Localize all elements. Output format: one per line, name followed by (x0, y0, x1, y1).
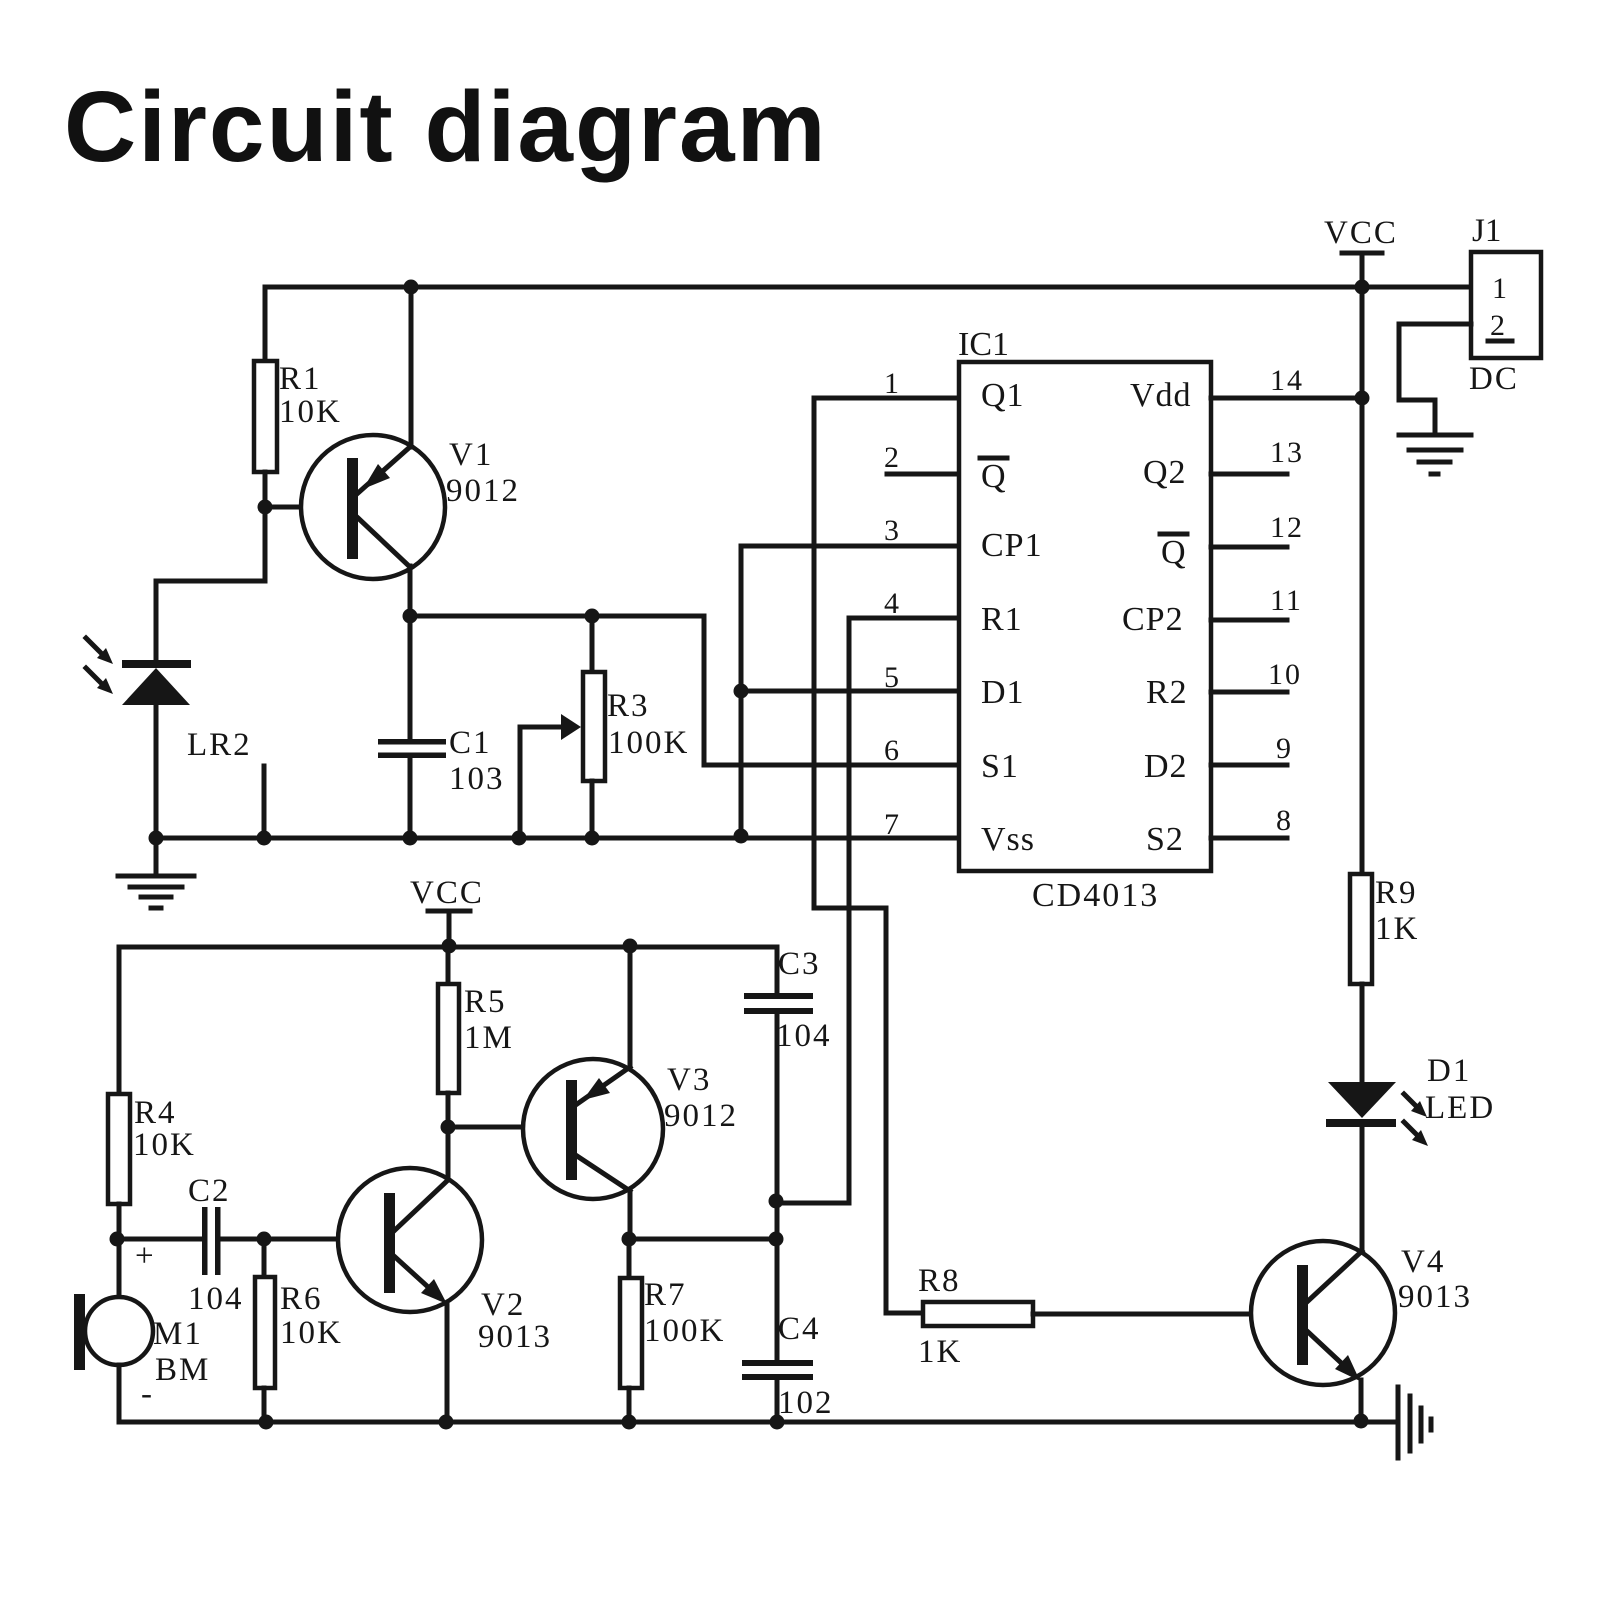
wire: pin14 Vdd to VCC line (1211, 396, 1362, 401)
svg-text:Circuit diagram: Circuit diagram (64, 71, 828, 183)
junction: C1 on Vss bus (403, 831, 418, 846)
svg-text:1K: 1K (918, 1334, 962, 1370)
svg-text:J1: J1 (1472, 213, 1501, 249)
junction: R3 top on node wire (585, 609, 600, 624)
transistor V2 (NPN 9013) (338, 1168, 482, 1312)
capacitor C4 (742, 1360, 813, 1380)
wire: R6 top lead (262, 1239, 267, 1277)
wire: Vss ground bus (152, 836, 959, 841)
svg-text:7: 7 (884, 808, 901, 841)
svg-text:Vdd: Vdd (1130, 377, 1192, 414)
junction: R7 node wire on C3 wire (769, 1232, 784, 1247)
wire: C2 left lead (117, 1237, 202, 1242)
wire: R5 bottom lead (446, 1093, 451, 1127)
wire: R7 top lead (627, 1239, 632, 1278)
svg-text:V4: V4 (1401, 1244, 1445, 1280)
svg-text:R2: R2 (1146, 674, 1188, 711)
junction: V1 emitter on top rail (404, 280, 419, 295)
svg-text:R1: R1 (279, 361, 322, 397)
svg-text:S1: S1 (981, 748, 1019, 785)
wire: IC pin4 R1 route to C3 node (777, 618, 959, 1203)
svg-text:R9: R9 (1375, 875, 1418, 911)
wire: node to V3 base (448, 1125, 566, 1130)
svg-text:Q1: Q1 (981, 377, 1025, 414)
svg-text:11: 11 (1270, 584, 1303, 617)
svg-text:104: 104 (188, 1281, 244, 1317)
svg-text:100K: 100K (608, 725, 689, 761)
transistor V4 (NPN 9013) (1251, 1241, 1395, 1385)
svg-text:CP1: CP1 (981, 527, 1043, 564)
junction: pin3 riser / pin5 wire (734, 684, 749, 699)
resistor R5 (438, 984, 459, 1093)
junction: R4 / C2 / M1 node (110, 1232, 125, 1247)
R3 wiper arrow (520, 714, 581, 740)
LED light arrow lower (1404, 1122, 1428, 1146)
svg-text:R3: R3 (607, 688, 650, 724)
junction: R5 / V2 collector / V3 base node (441, 1120, 456, 1135)
junction: V4 emitter on bottom bus (1354, 1414, 1369, 1429)
svg-text:Q: Q (1161, 534, 1187, 571)
svg-text:Q2: Q2 (1143, 454, 1187, 491)
power VCC symbol top right (1342, 253, 1382, 287)
capacitor C2 (202, 1207, 221, 1275)
junction: pin14 on VCC line (1355, 391, 1370, 406)
svg-text:R1: R1 (981, 601, 1023, 638)
svg-text:R8: R8 (918, 1263, 961, 1299)
svg-text:9013: 9013 (478, 1319, 552, 1355)
junction: R1 / V1 base node (258, 500, 273, 515)
wire: R6 bottom lead (262, 1388, 267, 1422)
wire: base node down then left to LR2 (156, 507, 265, 662)
svg-text:VCC: VCC (1324, 215, 1398, 251)
wire: ground stub below bus left end (154, 838, 159, 874)
svg-text:C1: C1 (449, 725, 492, 761)
junction: C2 / R6 / V2 base node (257, 1232, 272, 1247)
wire: node to C3/C4 node (629, 1237, 777, 1242)
svg-text:1: 1 (1492, 272, 1509, 305)
wire: pin11 stub (1211, 618, 1287, 623)
wire: C3 top lead from rail corner (775, 947, 780, 994)
junction: bus left end at LR2 (149, 831, 164, 846)
svg-text:CD4013: CD4013 (1032, 877, 1159, 914)
wire: IC pin2 stub (887, 472, 959, 477)
IC pin name Qbar1 (980, 458, 1007, 495)
wire: C3 bottom lead down to C4 (775, 1014, 780, 1361)
wire: R7 bottom lead (627, 1388, 632, 1422)
svg-text:R7: R7 (644, 1277, 687, 1313)
svg-text:13: 13 (1270, 436, 1304, 469)
junction: V2 emitter on bottom bus (439, 1415, 454, 1430)
svg-text:C4: C4 (778, 1311, 821, 1347)
svg-text:9: 9 (1276, 732, 1293, 765)
svg-text:2: 2 (884, 441, 901, 474)
wire: R4 bottom to mic node (117, 1204, 122, 1297)
junction: R6 on bottom bus (259, 1415, 274, 1430)
wire: VCC vertical line down to R9 (1360, 287, 1365, 874)
resistor R9 (1350, 874, 1372, 984)
svg-text:R4: R4 (134, 1095, 177, 1131)
wire: collector node to pin6 riser (410, 614, 704, 619)
junction: V1 collector node (403, 609, 418, 624)
svg-text:6: 6 (884, 734, 901, 767)
wire: IC pin6 S1 route to collector node (704, 616, 959, 765)
capacitor C1 (378, 739, 446, 758)
wire: V1 emitter up to top rail (409, 287, 414, 447)
svg-text:1K: 1K (1375, 911, 1419, 947)
potentiometer R3 (583, 672, 605, 781)
svg-text:R5: R5 (464, 984, 507, 1020)
svg-text:2: 2 (1490, 309, 1507, 342)
wire: pin13 stub (1211, 472, 1287, 477)
svg-text:103: 103 (449, 761, 505, 797)
svg-text:LED: LED (1425, 1090, 1495, 1126)
capacitor C3 (744, 993, 813, 1014)
svg-text:1M: 1M (464, 1020, 514, 1056)
svg-text:9012: 9012 (446, 473, 520, 509)
svg-text:102: 102 (778, 1385, 834, 1421)
svg-text:10K: 10K (133, 1127, 196, 1163)
junction: stub on ground bus (257, 831, 272, 846)
IC pin name Qbar2 (1160, 534, 1187, 571)
svg-text:S2: S2 (1146, 821, 1184, 858)
svg-text:DC: DC (1469, 361, 1519, 397)
junction: wiper wire on Vss bus (512, 831, 527, 846)
svg-text:D1: D1 (981, 674, 1025, 711)
junction: R7 on bottom bus (622, 1415, 637, 1430)
svg-text:10K: 10K (279, 394, 342, 430)
svg-text:1: 1 (884, 367, 901, 400)
wire: C1 top lead (408, 616, 413, 738)
ground: J1 ground symbol (1399, 435, 1471, 474)
svg-text:10K: 10K (280, 1315, 343, 1351)
svg-text:9013: 9013 (1398, 1279, 1472, 1315)
svg-text:D2: D2 (1144, 748, 1188, 785)
wire: R1 top lead from rail (263, 287, 268, 361)
svg-text:10: 10 (1268, 658, 1302, 691)
wire: J1 pin2 to ground (1399, 324, 1471, 435)
wire: wiper down to Vss bus (518, 727, 523, 838)
svg-text:3: 3 (884, 514, 901, 547)
svg-text:14: 14 (1270, 364, 1304, 397)
wire: R5 top lead from rail (446, 947, 451, 984)
IC IC1 CD4013 body (959, 362, 1211, 871)
wire: lower VCC rail (119, 945, 777, 950)
svg-text:LR2: LR2 (187, 727, 252, 763)
svg-text:9012: 9012 (664, 1098, 738, 1134)
junction: R3 bottom on Vss bus (585, 831, 600, 846)
wire: pin9 stub (1211, 763, 1287, 768)
resistor R7 (620, 1278, 642, 1388)
wire: C1 bottom lead (408, 757, 413, 838)
junction: VCC riser on top rail (1355, 280, 1370, 295)
wire: IC pin3 CP1 route down (741, 546, 959, 836)
resistor R8 (923, 1302, 1033, 1326)
wire: IC pin5 D1 lead (741, 689, 959, 694)
svg-text:12: 12 (1270, 511, 1304, 544)
light arrow into LR2 (lower) (86, 668, 113, 694)
svg-text:D1: D1 (1427, 1053, 1471, 1089)
wire: V1 base wire (265, 505, 347, 510)
wire: V4 emitter to bottom bus (1359, 1380, 1364, 1422)
resistor R1 (254, 361, 277, 472)
LED light arrow upper (1404, 1094, 1427, 1117)
wire: pin8 stub (1211, 836, 1287, 841)
svg-text:-: - (141, 1376, 154, 1412)
wire: D1 cathode down to V4 collector (1360, 1126, 1365, 1254)
photodiode LR2 (122, 660, 191, 705)
ground: right rotated ground symbol (1398, 1387, 1431, 1458)
wire: R3 top lead (590, 616, 595, 672)
wire: V2 collector up to R5 node (446, 1127, 451, 1180)
wire: LR2 cathode down to ground bus (154, 705, 159, 838)
connector J1 body (1471, 252, 1541, 358)
wire: top VCC rail (265, 285, 1471, 290)
transistor V1 (PNP 9012) (301, 435, 445, 579)
svg-text:IC1: IC1 (958, 326, 1009, 363)
power VCC symbol lower middle (428, 911, 470, 947)
LED D1 (1326, 1082, 1396, 1127)
wire: left drop to R4 (117, 947, 122, 1094)
svg-text:CP2: CP2 (1122, 601, 1184, 638)
svg-text:VCC: VCC (410, 875, 484, 911)
light arrow into LR2 (upper) (86, 638, 113, 664)
wire: pin10 stub (1211, 690, 1287, 695)
wire: R3 bottom lead (590, 781, 595, 838)
wire: M1 bottom to bus corner (117, 1365, 122, 1422)
svg-text:Q: Q (981, 458, 1007, 495)
wire: pin12 stub (1211, 545, 1287, 550)
wire: R1 bottom lead (263, 472, 268, 507)
wire: stub at x264 to ground bus (262, 766, 267, 838)
svg-text:Vss: Vss (981, 821, 1035, 858)
junction: pin4 route on C3 wire (769, 1194, 784, 1209)
wire: V3 emitter up to rail (628, 947, 633, 1067)
junction: C4 on bottom bus (770, 1415, 785, 1430)
wire: IC pin1 Q1 route to R8 (814, 398, 959, 1313)
J1 pin number 2 (1488, 309, 1512, 342)
svg-text:104: 104 (776, 1018, 832, 1054)
wire: V3 collector down (628, 1190, 633, 1239)
svg-text:+: + (135, 1238, 156, 1274)
svg-text:C3: C3 (778, 946, 821, 982)
resistor R6 (255, 1277, 275, 1388)
svg-text:8: 8 (1276, 804, 1293, 837)
svg-text:R6: R6 (280, 1281, 323, 1317)
ground: left ground symbol under LR2 (118, 876, 194, 908)
svg-text:BM: BM (155, 1352, 210, 1388)
svg-text:V3: V3 (667, 1062, 711, 1098)
svg-text:100K: 100K (644, 1313, 725, 1349)
junction: pin3 riser on Vss bus (734, 829, 749, 844)
resistor R4 (108, 1094, 130, 1204)
junction: V3 collector / R7 node (622, 1232, 637, 1247)
wire: V1 collector down to node (408, 566, 413, 616)
svg-text:V1: V1 (449, 437, 493, 473)
svg-text:M1: M1 (153, 1316, 203, 1352)
svg-text:V2: V2 (481, 1287, 525, 1323)
wire: R9 to D1 anode (1360, 984, 1365, 1082)
wire: C2 right lead to V2 base (220, 1237, 384, 1242)
svg-text:5: 5 (884, 661, 901, 694)
microphone M1 (74, 1294, 153, 1370)
svg-text:4: 4 (884, 587, 901, 620)
wire: C4 bottom lead (775, 1380, 780, 1422)
wire: bottom ground bus (119, 1420, 1396, 1425)
junction: V3 emitter on lower rail (623, 939, 638, 954)
junction: VCC stub on lower rail (442, 939, 457, 954)
svg-text:C2: C2 (188, 1173, 231, 1209)
transistor V3 (PNP 9012) (523, 1059, 663, 1199)
wire: R8 to V4 base (1033, 1312, 1297, 1317)
wire: V2 emitter down to bus (445, 1303, 450, 1422)
